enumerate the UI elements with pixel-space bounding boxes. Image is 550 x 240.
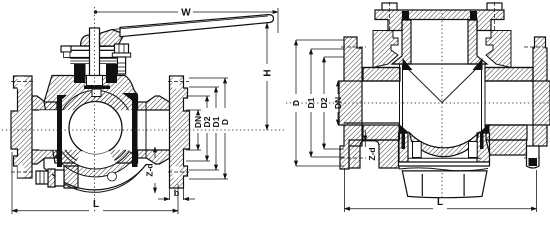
- svg-text:L: L: [437, 197, 443, 208]
- svg-text:D1: D1: [306, 97, 316, 108]
- svg-text:b: b: [174, 188, 180, 198]
- svg-text:DN: DN: [333, 97, 343, 109]
- svg-text:Z-d: Z-d: [367, 147, 377, 160]
- svg-text:H: H: [263, 69, 274, 76]
- svg-text:D: D: [220, 119, 230, 125]
- svg-text:Z-d: Z-d: [145, 163, 155, 176]
- svg-text:W: W: [181, 8, 191, 19]
- svg-text:D2: D2: [319, 97, 329, 108]
- svg-text:L: L: [93, 199, 99, 210]
- svg-text:D: D: [291, 100, 301, 106]
